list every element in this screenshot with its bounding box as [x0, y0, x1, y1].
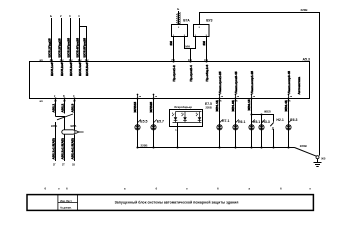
- svg-text:ЖЛБ25: ЖЛБ25: [149, 102, 153, 114]
- svg-text:ШС5.2об: ШС5.2об: [60, 62, 64, 76]
- lamp E5.7: [151, 125, 156, 130]
- svg-text:2: 2: [60, 14, 62, 18]
- svg-text:ШС5.3об: ШС5.3об: [69, 62, 73, 76]
- ground node circle: [316, 156, 319, 159]
- title block dividers: [58, 195, 78, 211]
- wire+lamp E6.3: [288, 99, 290, 148]
- diode VD3: [199, 112, 201, 118]
- connector tick E5.5: [138, 120, 141, 123]
- svg-text:ЖВ2.45: ЖВ2.45: [284, 100, 288, 112]
- wire SB1 drop: [55, 99, 57, 117]
- terminal labels bus top middle: [171, 58, 208, 62]
- svg-text:ЖВ25: ЖВ25: [264, 111, 271, 114]
- junction dots bottom-left pins: [54, 97, 75, 99]
- connector tick E5.7: [154, 120, 157, 123]
- bottom 220V bus: [138, 147, 295, 149]
- barrier U2 box: [170, 110, 203, 127]
- wire loop 1 top: [51, 18, 53, 62]
- svg-text:ШС5.4об: ШС5.4об: [78, 62, 82, 76]
- junction dots top-middle pins: [172, 60, 207, 62]
- svg-text:2М: 2М: [202, 41, 206, 46]
- svg-text:АБ2.1: АБ2.1: [51, 103, 55, 112]
- svg-text:ШС5.1об: ШС5.1об: [50, 62, 54, 76]
- wire SB2 drop: [64, 99, 66, 114]
- svg-text:Е6.3: Е6.3: [290, 118, 297, 122]
- svg-text:б: б: [217, 186, 219, 190]
- junction dots bus bottom feeds: [136, 97, 289, 99]
- svg-text:ЖВ1.85: ЖВ1.85: [231, 100, 235, 112]
- svg-text:АВ2.1х1.5(АВ): АВ2.1х1.5(АВ): [51, 138, 55, 159]
- svg-text:2Т: 2Т: [62, 165, 65, 167]
- wire merge B7A pin3 BU3 pin1: [185, 37, 196, 49]
- lamp H5.1: [249, 125, 254, 130]
- internal pin names middle: [172, 65, 209, 82]
- connector tick H3.3: [262, 120, 265, 123]
- wire loop 4 top: [79, 18, 81, 62]
- svg-text:Б: Б: [177, 7, 179, 11]
- svg-text:Ламп.пуск1-25: Ламп.пуск1-25: [218, 71, 222, 93]
- barrier pin numbers: [172, 112, 198, 115]
- svg-text:6: 6: [45, 186, 47, 190]
- wire loop 2 top: [61, 18, 63, 62]
- wire 220V feed from BU3 to right edge down: [200, 13, 320, 156]
- svg-text:220В: 220В: [206, 105, 212, 109]
- svg-text:АБ2.2: АБ2.2: [60, 103, 64, 112]
- diode VD1: [175, 112, 177, 118]
- pin numbers inside relays: [173, 27, 208, 37]
- switch contact SA1: [56, 117, 65, 131]
- svg-text:АВ2.4х1.5(АВ): АВ2.4х1.5(АВ): [70, 138, 74, 159]
- svg-text:220В: 220В: [300, 144, 307, 148]
- lamp E5.5: [135, 125, 140, 130]
- svg-text:220В: 220В: [301, 8, 308, 12]
- lamp H3.3: [259, 125, 264, 130]
- svg-text:Н5.1: Н5.1: [253, 120, 260, 124]
- svg-text:Пр.общ.2-6: Пр.общ.2-6: [205, 65, 209, 82]
- svg-text:МН: МН: [185, 45, 190, 49]
- bottom-left pin labels inside: [54, 96, 75, 98]
- svg-text:Пр.пуск1-2: Пр.пуск1-2: [172, 65, 176, 82]
- svg-text:№ докум.: № докум.: [60, 206, 72, 209]
- svg-text:В7А: В7А: [183, 19, 190, 23]
- svg-text:Б: Б: [50, 14, 52, 18]
- wire lamp E5.5 drop: [137, 99, 139, 148]
- svg-text:Е7.1: Е7.1: [222, 119, 229, 123]
- wire diagonal to ground node: [295, 148, 317, 157]
- svg-text:б: б: [280, 186, 282, 190]
- svg-text:Ж5: Ж5: [320, 157, 326, 161]
- barrier pin ticks: [172, 114, 198, 116]
- svg-text:1: 1: [175, 129, 177, 132]
- svg-text:Е5.7: Е5.7: [157, 119, 164, 123]
- svg-text:АВ2.2х1.5(АВ): АВ2.2х1.5(АВ): [60, 138, 64, 159]
- diode VD2: [184, 112, 186, 118]
- svg-text:ЖВ2.15: ЖВ2.15: [247, 99, 251, 111]
- svg-text:Изм. Лист: Изм. Лист: [60, 200, 72, 203]
- net names left drops: [51, 103, 74, 112]
- barrier top rail: [176, 111, 202, 113]
- connector plug symbol: [75, 130, 79, 133]
- svg-text:2Г: 2Г: [53, 165, 56, 167]
- svg-text:Искробарьер: Искробарьер: [174, 105, 192, 109]
- terminal labels bus top left: [50, 58, 89, 62]
- wire SB3 below oval: [74, 134, 76, 161]
- svg-text:2М: 2М: [169, 41, 173, 46]
- cable names lower left: [51, 138, 74, 159]
- svg-text:а: а: [249, 187, 251, 190]
- svg-text:1В: 1В: [72, 165, 75, 167]
- svg-text:2: 2: [178, 27, 180, 29]
- svg-text:АБ2.3: АБ2.3: [70, 103, 74, 112]
- svg-text:3: 3: [69, 14, 71, 18]
- svg-text:ШС5.5об: ШС5.5об: [85, 62, 89, 76]
- svg-text:Ламп.нспр1-25: Ламп.нспр1-25: [250, 71, 254, 94]
- svg-text:ЗЛБ: ЗЛБ: [70, 124, 77, 128]
- svg-text:ан: ан: [155, 96, 158, 98]
- connector pin H2.1: [270, 122, 273, 126]
- svg-text:ан: ан: [221, 96, 224, 98]
- coil hatched symbol above B7A: [176, 11, 180, 25]
- svg-text:ШС5.1Прд25: ШС5.1Прд25: [47, 38, 51, 57]
- barrier bottom rail: [173, 122, 202, 124]
- svg-text:б: б: [156, 186, 158, 190]
- wire B7A pin1 down to bus: [173, 37, 175, 62]
- svg-text:ап: ап: [40, 58, 44, 62]
- svg-text:а: а: [124, 187, 126, 190]
- relay BU3 box: [194, 25, 210, 37]
- junction dots bottom bus: [136, 146, 289, 148]
- svg-text:б: б: [66, 186, 68, 190]
- svg-text:ап: ап: [40, 99, 44, 103]
- svg-text:2: 2: [272, 127, 274, 131]
- svg-text:2: 2: [199, 27, 201, 29]
- svg-text:КЛА: КЛА: [51, 124, 58, 128]
- svg-text:220В: 220В: [141, 144, 148, 148]
- svg-text:Н2.1: Н2.1: [276, 118, 283, 122]
- svg-text:Н3.3: Н3.3: [262, 120, 269, 124]
- svg-text:о: о: [58, 187, 60, 190]
- wire end labels: [53, 165, 75, 167]
- wire+lamp E7.1: [219, 99, 221, 148]
- svg-text:ЖЛБ15: ЖЛБ15: [133, 102, 137, 114]
- svg-text:ШС5.2Прд25: ШС5.2Прд25: [57, 38, 61, 57]
- junction dots top-left pins: [50, 60, 87, 62]
- svg-text:ШС5.4Прм25: ШС5.4Прм25: [75, 38, 79, 58]
- svg-text:ан: ан: [290, 96, 293, 98]
- svg-text:Е7.5: Е7.5: [205, 102, 212, 106]
- svg-text:ан: ан: [139, 96, 142, 98]
- wire lamp E5.7 drop: [153, 99, 155, 148]
- wire BU3 pin3 down to bus: [206, 37, 208, 62]
- svg-text:ан: ан: [237, 96, 240, 98]
- relay B7A box: [172, 25, 188, 37]
- svg-text:Ламп.пуск3-45: Ламп.пуск3-45: [234, 71, 238, 93]
- svg-text:ан: ан: [253, 96, 256, 98]
- barrier output wire: [177, 123, 179, 148]
- wire+lamp E6.1: [235, 99, 237, 148]
- branch wire to H2.1: [252, 115, 274, 122]
- svg-text:ШС5.5Прм25: ШС5.5Прм25: [82, 38, 86, 58]
- wire SB2 below oval: [64, 134, 66, 161]
- wire branch of loop 4: [80, 27, 87, 62]
- terminal oval XT1: [62, 130, 75, 134]
- svg-text:ШС5.3Прм25: ШС5.3Прм25: [66, 38, 70, 58]
- wire loop 3 top: [70, 18, 72, 62]
- title block frame: [27, 195, 313, 211]
- svg-text:ЖВ1.15: ЖВ1.15: [215, 100, 219, 112]
- wire lamp H3.3 drop from branch: [261, 115, 263, 148]
- svg-text:Ламп.нспр3-45: Ламп.нспр3-45: [287, 71, 291, 94]
- svg-text:Е5.5: Е5.5: [140, 119, 147, 123]
- connector tick H5.1: [252, 120, 255, 123]
- svg-text:ВУЗ: ВУЗ: [206, 19, 212, 23]
- zone marks along bottom: [45, 186, 312, 190]
- junction dot branch: [250, 113, 252, 115]
- terminal labels under bus bottom left: [54, 101, 76, 103]
- svg-text:Автоматика: Автоматика: [297, 77, 301, 95]
- svg-text:А5.3: А5.3: [303, 57, 310, 61]
- internal stubs above bottom edge: [137, 94, 293, 99]
- block A5.3 main device rectangle: [30, 62, 310, 99]
- ground symbol: [314, 159, 322, 167]
- wire lamp H5.1 drop: [251, 99, 253, 148]
- wire SB1 lower: [55, 122, 57, 161]
- internal pin names right bottom: [218, 71, 291, 94]
- svg-text:4: 4: [78, 14, 80, 18]
- svg-text:Е6.1: Е6.1: [238, 120, 245, 124]
- wire SB3 drop: [74, 99, 76, 131]
- svg-text:Пр.пуск2-4: Пр.пуск2-4: [189, 65, 193, 82]
- svg-text:о: о: [186, 187, 188, 190]
- internal pin names left: [50, 62, 89, 76]
- svg-text:Запущенный блок системы автома: Запущенный блок системы автоматической п…: [115, 201, 239, 205]
- svg-text:к: к: [310, 187, 312, 190]
